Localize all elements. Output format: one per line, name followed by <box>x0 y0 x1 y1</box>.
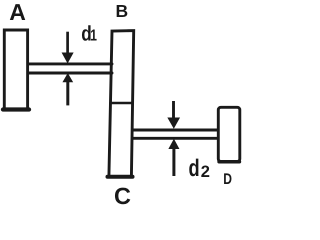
svg-text:2: 2 <box>201 163 210 181</box>
svg-text:1: 1 <box>90 28 97 45</box>
svg-text:A: A <box>9 0 26 25</box>
svg-text:C: C <box>114 183 131 209</box>
svg-text:B: B <box>116 1 129 21</box>
svg-text:d: d <box>189 155 200 182</box>
svg-text:D: D <box>223 171 232 188</box>
